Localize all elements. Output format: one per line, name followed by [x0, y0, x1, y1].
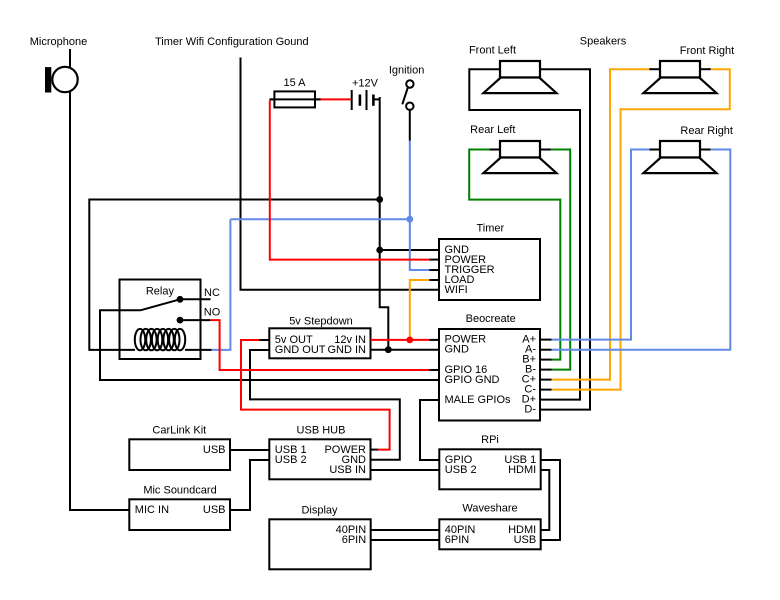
- wire 5v OUT stub: [259, 339, 269, 341]
- label Microphone: [30, 36, 87, 48]
- svg-text:Timer: Timer: [476, 223, 504, 235]
- pin Beocreate GND: [445, 344, 470, 356]
- label Front Right: [680, 45, 734, 57]
- wire USB HUB POWER stub: [371, 449, 379, 451]
- microphone symbol: [45, 67, 78, 93]
- wire relay NC stub: [180, 298, 211, 300]
- pin Timer WIFI: [445, 284, 468, 296]
- box Display: [269, 519, 370, 569]
- wire Rear Right speaker - to Beocreate A- blue: [552, 150, 731, 350]
- wire Mic Soundcard USB to USB HUB USB 2: [230, 460, 269, 510]
- label Relay: [146, 286, 175, 298]
- wire 5v OUT to USB HUB POWER red: [241, 340, 390, 450]
- svg-text:GND OUT: GND OUT: [275, 344, 326, 356]
- wire 12v IN to Beocreate POWER red: [371, 339, 430, 341]
- wire TRIGGER stub: [429, 269, 439, 271]
- box Relay: [120, 280, 201, 360]
- box CarLink Kit: [129, 439, 230, 470]
- pin RPi USB 1: [504, 454, 536, 466]
- wire Rear Left speaker - stub: [540, 149, 551, 151]
- svg-text:+12V: +12V: [352, 78, 379, 90]
- pin USB HUB USB IN: [329, 464, 366, 476]
- svg-text:Ignition: Ignition: [389, 65, 424, 77]
- pin Waveshare 6PIN: [445, 534, 470, 546]
- wire battery right lead: [373, 98, 379, 100]
- wire fuse line: [270, 98, 321, 100]
- label Display: [301, 505, 338, 517]
- svg-text:15 A: 15 A: [283, 77, 306, 89]
- pin Beocreate MALE GPIOs: [445, 394, 512, 406]
- wire Timer LOAD stub: [429, 279, 439, 281]
- wire Timer Wifi Configuration ground to WIFI pin: [241, 58, 440, 290]
- pin Mic Soundcard MIC IN: [135, 504, 169, 516]
- svg-text:Waveshare: Waveshare: [462, 503, 517, 515]
- junction node Beocreate GND: [385, 346, 392, 353]
- wire relay NO to Beocreate GPIO 16 red: [210, 320, 429, 370]
- box 5v Stepdown: [269, 328, 370, 358]
- label Ignition: [389, 65, 424, 77]
- wire fuse down to Timer POWER red: [270, 100, 429, 259]
- svg-text:Mic Soundcard: Mic Soundcard: [143, 485, 216, 497]
- pin Timer POWER: [445, 254, 487, 266]
- wire Front Right speaker + to Beocreate C+ orange: [552, 69, 650, 379]
- pin Waveshare HDMI: [508, 524, 536, 536]
- speaker Rear Right: [643, 141, 716, 173]
- label NC: [204, 287, 220, 299]
- wire fuse to battery red: [321, 98, 351, 100]
- box Beocreate: [439, 329, 540, 421]
- pin USB HUB USB 2: [275, 454, 307, 466]
- pin Beocreate GPIO GND: [445, 374, 500, 386]
- pin Stepdown 12v IN: [334, 334, 366, 346]
- box Waveshare: [439, 519, 540, 549]
- wire Rear Right speaker + to Beocreate A+ blue: [552, 150, 650, 340]
- box Timer: [439, 239, 540, 300]
- svg-text:USB: USB: [203, 444, 226, 456]
- wire relay NO stub black: [180, 319, 210, 321]
- label Mic Soundcard: [143, 485, 216, 497]
- pin Beocreate C-: [524, 384, 536, 396]
- svg-text:D-: D-: [524, 404, 536, 416]
- svg-text:USB 2: USB 2: [445, 464, 477, 476]
- svg-text:Display: Display: [301, 505, 338, 517]
- wire B- stub: [540, 369, 552, 371]
- wire relay coil right stub: [185, 349, 212, 351]
- label Timer Wifi Configuration Gound: [155, 36, 309, 48]
- pin Stepdown 5v OUT: [275, 334, 313, 346]
- wire A- stub: [540, 349, 552, 351]
- svg-text:GND: GND: [445, 344, 470, 356]
- svg-text:Beocreate: Beocreate: [466, 313, 516, 325]
- svg-text:Relay: Relay: [146, 286, 175, 298]
- wire Beocreate MALE GPIOs to RPi GPIO: [420, 400, 439, 460]
- svg-text:CarLink Kit: CarLink Kit: [152, 425, 206, 437]
- ignition switch: [402, 80, 413, 110]
- label CarLink Kit: [152, 425, 206, 437]
- label Rear Right: [680, 125, 733, 137]
- pin RPi HDMI: [508, 464, 536, 476]
- wire Rear Right speaker + stub: [649, 149, 660, 151]
- wire microphone to Mic Soundcard MIC IN: [70, 49, 129, 510]
- wire C- stub: [540, 389, 552, 391]
- pin Beocreate B-: [525, 364, 536, 376]
- svg-text:Rear Left: Rear Left: [470, 124, 515, 136]
- wire 5v Stepdown GND IN to Beocreate GND: [371, 349, 440, 351]
- wire battery negative down with jog: [380, 97, 389, 350]
- label Beocreate: [466, 313, 516, 325]
- wire C+ stub: [540, 379, 552, 381]
- svg-text:RPi: RPi: [481, 434, 499, 446]
- wire Beocreate POWER stub: [429, 339, 439, 341]
- pin USB HUB USB 1: [275, 444, 307, 456]
- svg-text:NC: NC: [204, 287, 220, 299]
- junction node trigger blue: [406, 216, 413, 223]
- pin Stepdown GND IN: [328, 344, 367, 356]
- pin Beocreate D+: [522, 394, 536, 406]
- pin Stepdown GND OUT: [275, 344, 326, 356]
- pin RPi USB 2: [445, 464, 477, 476]
- svg-text:Front Left: Front Left: [469, 45, 516, 57]
- svg-text:Speakers: Speakers: [580, 36, 627, 48]
- svg-text:HDMI: HDMI: [508, 464, 536, 476]
- wire Front Right speaker - stub: [700, 68, 711, 70]
- svg-text:WIFI: WIFI: [445, 284, 468, 296]
- pin USB HUB GND: [342, 454, 367, 466]
- svg-text:USB: USB: [203, 504, 226, 516]
- wire Display 40PIN to Waveshare 40PIN: [371, 529, 440, 531]
- junction node power rail red: [406, 337, 413, 344]
- speaker Front Left: [483, 61, 556, 93]
- svg-text:USB: USB: [514, 534, 537, 546]
- svg-text:MIC IN: MIC IN: [135, 504, 169, 516]
- fuse 15 A: [270, 91, 321, 107]
- wire CarLink USB to USB HUB USB 1: [230, 449, 269, 451]
- wire Front Right speaker + stub: [649, 68, 660, 70]
- pin Beocreate C+: [522, 374, 536, 386]
- svg-text:5v Stepdown: 5v Stepdown: [289, 316, 353, 328]
- wire Front Left speaker - to Beocreate D-: [540, 69, 590, 409]
- wire RPi HDMI to Waveshare HDMI: [541, 470, 550, 530]
- label USB HUB: [297, 425, 346, 437]
- svg-text:Front Right: Front Right: [680, 45, 734, 57]
- label Timer: [476, 223, 504, 235]
- pin Timer TRIGGER: [445, 264, 495, 276]
- pin Waveshare USB: [514, 534, 537, 546]
- pin Beocreate A-: [525, 344, 536, 356]
- wire ignition to Timer TRIGGER blue: [230, 141, 429, 270]
- label RPi: [481, 434, 499, 446]
- relay coil: [135, 329, 185, 350]
- pin Display 40PIN: [336, 524, 367, 536]
- speaker Rear Left: [483, 141, 556, 173]
- wire ignition switch lower lead black: [409, 110, 411, 141]
- speaker Front Right: [643, 61, 716, 93]
- pin Beocreate B+: [522, 354, 536, 366]
- wire relay coil to Timer TRIGGER blue: [212, 219, 231, 350]
- svg-text:6PIN: 6PIN: [445, 534, 470, 546]
- wire 5v Stepdown GND OUT to USB HUB GND: [250, 350, 400, 460]
- pin Beocreate GPIO 16: [445, 364, 488, 376]
- label +12V: [352, 78, 379, 90]
- label NO: [204, 307, 221, 319]
- wire A+ stub: [540, 339, 552, 341]
- svg-text:MALE GPIOs: MALE GPIOs: [445, 394, 512, 406]
- pin Beocreate POWER: [445, 334, 487, 346]
- wire Display 6PIN to Waveshare 6PIN: [371, 539, 440, 541]
- wire Rear Right speaker - stub: [700, 149, 711, 151]
- wire B+ stub: [540, 359, 552, 361]
- pin Mic Soundcard USB: [203, 504, 226, 516]
- svg-text:Microphone: Microphone: [30, 36, 87, 48]
- battery +12V: [352, 90, 374, 110]
- svg-text:NO: NO: [204, 307, 221, 319]
- box USB HUB: [269, 439, 370, 479]
- wire Timer GND: [380, 249, 439, 251]
- label Speakers: [580, 36, 627, 48]
- pin USB HUB POWER: [324, 444, 366, 456]
- wire USB HUB USB IN to RPi USB 2: [371, 469, 440, 471]
- wire Front Right speaker - to Beocreate C- orange: [552, 69, 730, 389]
- svg-text:GND IN: GND IN: [328, 344, 367, 356]
- label 15 A: [283, 77, 306, 89]
- wire Timer LOAD to power rail orange: [410, 280, 429, 340]
- pin Display 6PIN: [342, 534, 367, 546]
- label Front Left: [469, 45, 516, 57]
- pin RPi GPIO: [445, 454, 473, 466]
- svg-text:6PIN: 6PIN: [342, 534, 367, 546]
- relay switch arm: [140, 296, 183, 324]
- svg-text:USB 2: USB 2: [275, 454, 307, 466]
- junction node Timer GND: [376, 247, 383, 254]
- junction node ground-battery: [376, 196, 383, 203]
- wire Front Left speaker + to Beocreate D+: [469, 69, 580, 399]
- wire relay common to Beocreate GPIO GND: [100, 310, 439, 380]
- label 5v Stepdown: [289, 316, 353, 328]
- pin Beocreate D-: [524, 404, 536, 416]
- wire GPIO 16 stub: [429, 369, 439, 371]
- svg-text:USB HUB: USB HUB: [297, 425, 346, 437]
- pin Beocreate A+: [522, 334, 536, 346]
- svg-text:Rear Right: Rear Right: [680, 125, 733, 137]
- svg-text:USB IN: USB IN: [329, 464, 366, 476]
- pin Timer LOAD: [445, 274, 475, 286]
- wire RPi USB 1 to Waveshare USB: [541, 460, 560, 540]
- wire Rear Left speaker + stub: [489, 149, 500, 151]
- box Mic Soundcard: [129, 499, 230, 530]
- svg-text:GPIO GND: GPIO GND: [445, 374, 500, 386]
- svg-text:Timer Wifi Configuration Gound: Timer Wifi Configuration Gound: [155, 36, 309, 48]
- box RPi: [439, 449, 540, 489]
- label Waveshare: [462, 503, 517, 515]
- wire ground main to relay coil: [89, 200, 379, 350]
- pin Waveshare 40PIN: [445, 524, 476, 536]
- pin CarLink USB: [203, 444, 226, 456]
- pin Timer GND: [445, 244, 470, 256]
- wire Rear Left speaker - to Beocreate B- green: [551, 150, 570, 370]
- wire Rear Left speaker + to Beocreate B+ green: [469, 150, 560, 360]
- label Rear Left: [470, 124, 515, 136]
- wire Timer POWER stub: [429, 259, 439, 261]
